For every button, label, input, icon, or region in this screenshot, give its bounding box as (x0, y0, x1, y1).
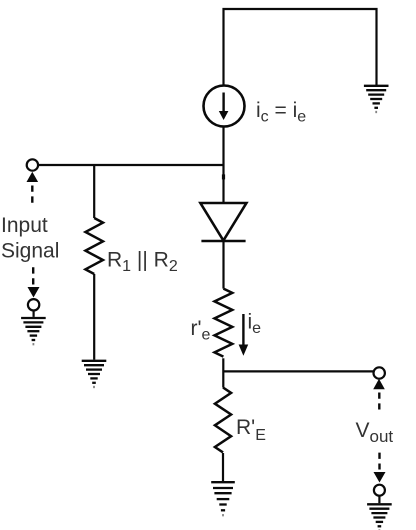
svg-text:ie: ie (248, 311, 262, 338)
svg-text:Input: Input (1, 214, 48, 237)
svg-text:r'e: r'e (191, 317, 211, 344)
svg-text:R'E: R'E (236, 416, 266, 444)
svg-text:R1 || R2: R1 || R2 (107, 249, 178, 276)
svg-text:Vout: Vout (356, 419, 394, 446)
svg-text:Signal: Signal (1, 240, 59, 263)
svg-text:ic = ie: ic = ie (256, 99, 306, 126)
